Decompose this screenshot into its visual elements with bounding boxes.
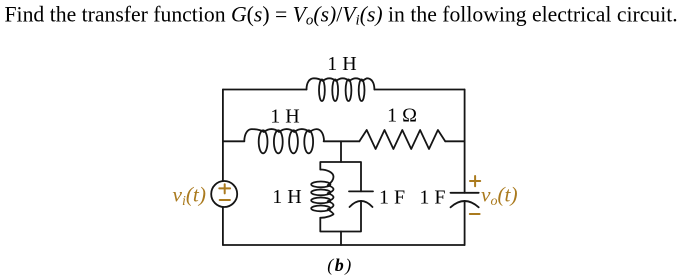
svg-text:(b): (b) [327,255,353,276]
svg-text:vo(t): vo(t) [481,183,518,210]
source polarity marks [219,184,230,200]
svg-text:1 H: 1 H [270,106,299,128]
resistor R1 1ohm [359,130,445,149]
capacitor C2 1F right [451,192,479,194]
inductor L3 1H vertical [320,170,333,218]
svg-text:1 H: 1 H [272,186,301,208]
inductor L2 1H middle [244,129,324,141]
svg-text:1 H: 1 H [327,53,356,75]
wire middle rail [223,140,465,142]
svg-text:1 Ω: 1 Ω [387,104,417,126]
node stub bottom [340,232,342,246]
svg-text:Find the transfer function G(s: Find the transfer function G(s) = Vo(s)/… [5,3,678,29]
svg-text:1 F: 1 F [379,187,405,209]
node stub top [340,141,342,162]
wire top rail [223,89,465,91]
parallel box rails [320,162,361,232]
wire bottom rail [223,244,465,246]
svg-text:vi(t): vi(t) [173,183,206,210]
inductor L1 1H top [307,78,375,89]
source V1 circle [211,181,237,207]
output polarity marks [470,176,480,214]
svg-text:1 F: 1 F [419,187,445,209]
wire left rail [222,90,224,246]
capacitor C1 1F middle [349,190,373,192]
wire right rail [464,90,466,246]
